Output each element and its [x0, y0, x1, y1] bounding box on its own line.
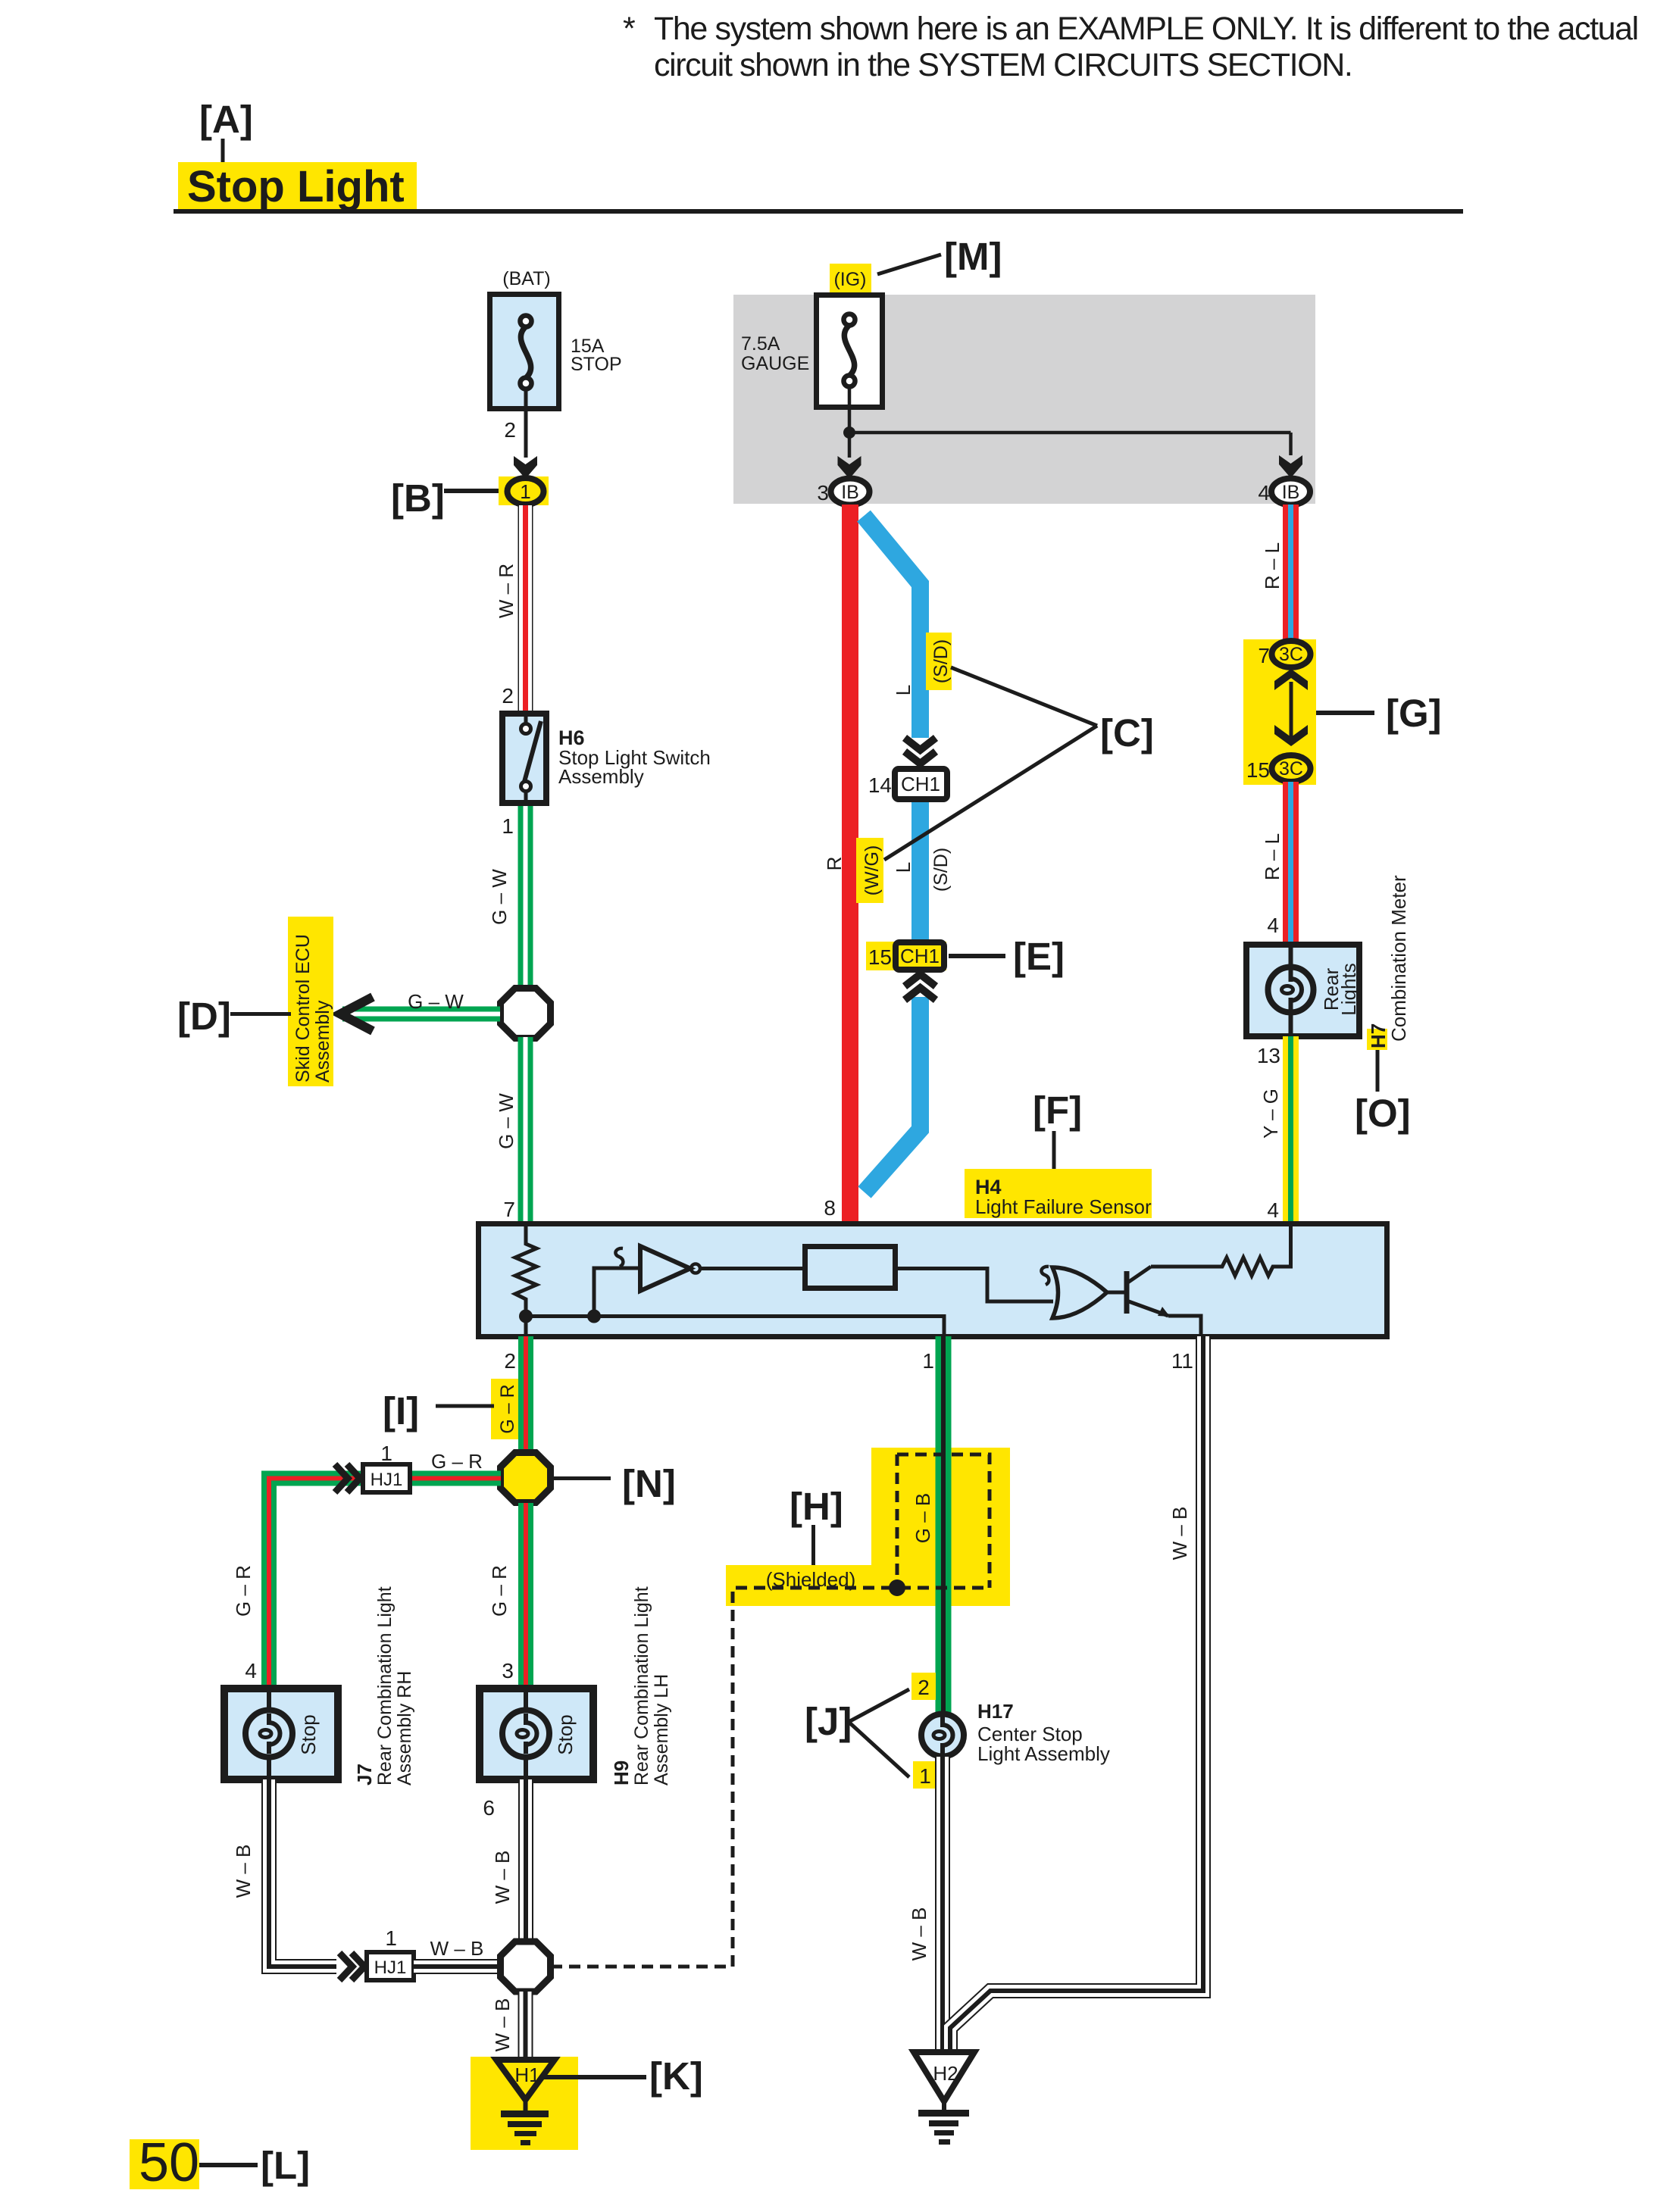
lamp H9 Rear Combination Light Assembly LH: [480, 1689, 593, 1779]
H4 internal: line comparator to relay box: [700, 1267, 802, 1270]
svg-text:G – W: G – W: [408, 990, 464, 1013]
junction connector yellow box 3C pair: [1243, 639, 1316, 785]
svg-text:3: 3: [817, 481, 829, 505]
wire G-R horizontal octagon to HJ1 to corner: [269, 1450, 501, 1688]
H4 internal: emitter to pin 11: [1168, 1316, 1201, 1335]
svg-text:G – W: G – W: [488, 869, 511, 925]
H4 internal: comparator curl: [615, 1248, 623, 1267]
svg-text:1: 1: [919, 1764, 931, 1788]
connector B "1": [499, 476, 549, 505]
title Stop Light: [174, 162, 1463, 214]
svg-text:HJ1: HJ1: [371, 1470, 403, 1490]
connector 3 IB: [817, 479, 869, 505]
svg-text:W – B: W – B: [491, 1998, 514, 2052]
wire G-R from H4 pin 2 to octagon N: [518, 1336, 533, 1453]
label H17 Center Stop Light Assembly: [977, 1700, 1110, 1765]
svg-text:W – B: W – B: [430, 1937, 484, 1960]
svg-text:[D]: [D]: [177, 995, 231, 1038]
lamp H17 Center Stop Light Assembly: [921, 1714, 964, 1757]
H4 internal: OR gate curl: [1041, 1267, 1049, 1285]
svg-text:Assembly: Assembly: [312, 1000, 333, 1083]
svg-text:Light Assembly: Light Assembly: [977, 1742, 1110, 1765]
svg-text:1: 1: [922, 1349, 934, 1373]
shield yellow backgrounds: [726, 1448, 1010, 1606]
svg-text:[C]: [C]: [1100, 711, 1154, 755]
svg-text:8: 8: [824, 1196, 836, 1220]
connector 14 CH1: [868, 769, 947, 799]
svg-text:(S/D): (S/D): [930, 848, 952, 892]
wire W-B octagon to ground H1: [491, 1992, 526, 2057]
label Skid Control ECU Assembly: [288, 917, 333, 1086]
wire L (S/D shielded blue) upper run: [864, 516, 921, 1192]
svg-text:G – R: G – R: [488, 1565, 511, 1617]
label H9: [610, 1586, 672, 1786]
svg-text:4: 4: [245, 1659, 257, 1682]
svg-text:Lights: Lights: [1337, 963, 1360, 1015]
connector 15 CH1: [866, 942, 946, 970]
component H4 Light Failure Sensor box: [479, 1224, 1387, 1337]
svg-text:HJ1: HJ1: [374, 1957, 407, 1978]
svg-text:Combination Meter: Combination Meter: [1387, 875, 1410, 1042]
connector HJ1 (upper): [363, 1442, 410, 1492]
svg-text:[E]: [E]: [1013, 935, 1065, 978]
svg-text:H9: H9: [610, 1761, 633, 1786]
label [M]: [877, 235, 1002, 278]
svg-text:(W/G): (W/G): [861, 845, 883, 896]
label (W/G) yellow: [856, 838, 883, 903]
wire fuse1 to connector B: [504, 411, 537, 479]
page number 50 [L]: [130, 2132, 310, 2193]
svg-text:Stop: Stop: [554, 1714, 577, 1755]
lamp J7 Rear Combination Light Assembly RH: [224, 1689, 338, 1779]
label G-R yellow [I]: [491, 1379, 518, 1439]
wire W-B from H9 pin 6 to octagon: [491, 1779, 526, 1943]
label [J]: [805, 1689, 909, 1777]
svg-text:3C: 3C: [1279, 758, 1303, 780]
svg-text:1: 1: [502, 814, 514, 838]
ground H2: [914, 2052, 974, 2145]
svg-text:Skid Control ECU: Skid Control ECU: [292, 934, 314, 1083]
chevron arrows into 14 CH1: [905, 738, 936, 764]
svg-text:2: 2: [504, 418, 516, 442]
wire R-L from 4 IB to connector 3C: [1261, 505, 1291, 643]
connector 15 3C: [1246, 755, 1311, 782]
svg-text:IB: IB: [1282, 482, 1300, 503]
svg-text:3C: 3C: [1279, 644, 1303, 665]
svg-text:G – B: G – B: [911, 1493, 934, 1543]
H4 internal: horizontal resistor to pin 4: [1151, 1226, 1291, 1276]
connector HJ1 (lower): [367, 1926, 414, 1980]
chevron arrows out of 15 CH1: [905, 974, 936, 1000]
wire G-W vertical upper: [488, 806, 526, 989]
svg-text:CH1: CH1: [901, 773, 940, 795]
label [N]: [551, 1462, 676, 1505]
arrowhead to skid control ECU: [340, 997, 373, 1031]
svg-text:STOP: STOP: [571, 354, 622, 375]
H4 top pin labels 7 8 4: [503, 1196, 1279, 1222]
label G-R rotated (H9 branch): [488, 1503, 526, 1688]
svg-text:G – R: G – R: [232, 1565, 255, 1617]
chevron arrows into HJ1 (upper): [335, 1464, 360, 1492]
svg-text:[B]: [B]: [391, 476, 445, 520]
connector 4 IB: [1258, 479, 1310, 505]
svg-text:[L]: [L]: [261, 2144, 310, 2187]
svg-text:13: 13: [1257, 1044, 1280, 1067]
svg-text:[F]: [F]: [1033, 1089, 1082, 1132]
svg-text:CH1: CH1: [900, 945, 940, 967]
svg-text:Stop: Stop: [297, 1714, 320, 1755]
pin 2 label H17 (yellow): [911, 1673, 936, 1700]
label [H]: [790, 1485, 843, 1565]
svg-text:Rear Combination Light: Rear Combination Light: [631, 1586, 652, 1786]
svg-text:H2: H2: [933, 2062, 958, 2085]
svg-text:[J]: [J]: [805, 1700, 852, 1743]
svg-text:W – B: W – B: [491, 1851, 514, 1904]
H4 internal: vertical resistor: [515, 1226, 536, 1316]
svg-text:2: 2: [504, 1349, 516, 1373]
junction octagon W-B node: [501, 1942, 551, 1992]
svg-text:15: 15: [868, 945, 892, 969]
label [C] with pointer lines: [884, 667, 1154, 860]
svg-text:6: 6: [483, 1796, 495, 1820]
fuse 15A STOP (BAT): [490, 268, 622, 409]
wire W-B from J7 pin 3 to HJ1 lower: [232, 1779, 336, 1967]
svg-text:[H]: [H]: [790, 1485, 843, 1528]
svg-text:[I]: [I]: [383, 1389, 419, 1432]
svg-text:Light Failure Sensor: Light Failure Sensor: [975, 1195, 1152, 1218]
switch H6 Stop Light Switch Assembly: [502, 684, 710, 838]
svg-text:*: *: [623, 11, 636, 47]
svg-text:1: 1: [380, 1442, 392, 1465]
svg-text:Assembly RH: Assembly RH: [394, 1671, 415, 1786]
svg-text:W – B: W – B: [1168, 1507, 1191, 1561]
H4 internal: OR gate: [1052, 1267, 1107, 1318]
svg-text:Assembly: Assembly: [558, 765, 644, 788]
label H4 Light Failure Sensor: [965, 1169, 1152, 1218]
svg-text:The system shown here is an EX: The system shown here is an EXAMPLE ONLY…: [654, 11, 1638, 47]
label J7: [353, 1586, 415, 1786]
svg-text:1: 1: [385, 1926, 397, 1950]
svg-text:15: 15: [1246, 758, 1270, 782]
svg-text:H1: H1: [514, 2064, 539, 2086]
svg-text:[N]: [N]: [622, 1462, 676, 1505]
svg-text:L: L: [892, 862, 915, 873]
H4 internal: transistor: [1107, 1267, 1170, 1317]
wire W-B HJ1 to octagon lower: [414, 1937, 501, 1967]
wire G-W horizontal to skid ECU: [342, 990, 500, 1014]
label (S/D) yellow upper: [926, 633, 952, 690]
svg-text:14: 14: [868, 773, 892, 797]
label [B]: [391, 476, 506, 520]
svg-text:L: L: [892, 685, 915, 695]
junction block grey box: [733, 295, 1315, 504]
svg-text:(IG): (IG): [833, 269, 866, 290]
H4 internal: comparator input line: [594, 1268, 639, 1317]
svg-text:IB: IB: [841, 482, 859, 503]
H4 internal: comparator triangle: [640, 1246, 700, 1291]
label [G]: [1316, 692, 1442, 735]
svg-text:[M]: [M]: [944, 235, 1002, 278]
ground H1 (yellow): [471, 2057, 578, 2150]
svg-text:[G]: [G]: [1386, 692, 1442, 735]
svg-text:W – R: W – R: [495, 564, 517, 618]
svg-text:(BAT): (BAT): [502, 268, 550, 289]
wire R-L from 15 3C to combination meter: [1261, 782, 1291, 945]
svg-text:(S/D): (S/D): [930, 639, 952, 683]
H4 internal: junction dots: [519, 1310, 533, 1323]
svg-text:GAUGE: GAUGE: [741, 353, 809, 374]
svg-text:R – L: R – L: [1261, 833, 1284, 880]
label (IG): [830, 264, 871, 292]
wire G-W vertical lower: [495, 1037, 526, 1223]
svg-text:G – R: G – R: [497, 1384, 518, 1433]
wire W-R vertical: [495, 505, 526, 711]
svg-text:50: 50: [139, 2132, 199, 2193]
svg-text:2: 2: [502, 684, 514, 708]
junction octagon (G-W node): [501, 989, 551, 1039]
H4 internal: relay rectangle: [805, 1247, 896, 1289]
svg-text:Y – G: Y – G: [1259, 1089, 1282, 1139]
svg-text:Stop Light: Stop Light: [187, 162, 405, 211]
H4 internal: line relay to OR gate: [896, 1269, 1053, 1302]
svg-text:[O]: [O]: [1355, 1092, 1411, 1135]
svg-text:4: 4: [1267, 914, 1279, 937]
svg-text:W – B: W – B: [232, 1845, 255, 1898]
svg-text:R – L: R – L: [1261, 542, 1284, 589]
wire Y-G combination meter to H4 pin 4: [1257, 1036, 1291, 1223]
junction block internal wiring: [838, 386, 1303, 479]
fuse 7.5A GAUGE (IG): [741, 295, 883, 408]
svg-text:H7: H7: [1367, 1023, 1390, 1048]
arrows between 3C connectors: [1274, 669, 1308, 746]
wire G-B from H4 pin 1 to H17: [911, 1336, 943, 1713]
H4 internal: bus line to pin 1: [526, 1317, 944, 1336]
label [I]: [383, 1389, 494, 1432]
junction octagon N (yellow): [501, 1453, 551, 1503]
wire R (red) from 3 IB to H4 pin 8: [823, 505, 850, 1223]
svg-text:7: 7: [1258, 644, 1270, 667]
svg-text:1: 1: [520, 480, 530, 503]
svg-text:[A]: [A]: [199, 98, 253, 141]
svg-text:4: 4: [1258, 481, 1270, 505]
label [F]: [1033, 1089, 1082, 1173]
label [K]: [543, 2054, 703, 2098]
svg-text:R: R: [823, 857, 846, 871]
chevron arrows into HJ1 (lower): [339, 1953, 364, 1980]
svg-text:J7: J7: [353, 1764, 376, 1786]
label [E]: [949, 935, 1065, 978]
svg-text:G – R: G – R: [431, 1450, 483, 1473]
svg-text:circuit shown in the SYSTEM CI: circuit shown in the SYSTEM CIRCUITS SEC…: [654, 47, 1352, 83]
svg-text:3: 3: [502, 1659, 514, 1682]
shield dashed box around G-B: [551, 1454, 990, 1967]
svg-text:7.5A: 7.5A: [741, 333, 780, 355]
H4 bottom pin labels 2 1 11: [504, 1349, 1193, 1373]
wire W-B from H4 pin 11 to ground junction: [950, 1336, 1203, 2051]
svg-text:H17: H17: [977, 1700, 1014, 1723]
H4 internal: line pin2 from dot: [524, 1317, 528, 1336]
label H7: [1367, 1023, 1390, 1092]
svg-text:4: 4: [1267, 1198, 1279, 1222]
svg-text:[K]: [K]: [649, 2054, 703, 2098]
svg-text:Assembly LH: Assembly LH: [651, 1674, 672, 1786]
svg-text:7: 7: [503, 1198, 515, 1221]
wire W-B H17 to ground H2: [908, 1757, 943, 2051]
pin 1 label H17 (yellow): [913, 1761, 937, 1789]
label [D]: [177, 995, 291, 1038]
svg-text:Rear Combination Light: Rear Combination Light: [374, 1586, 396, 1786]
svg-text:11: 11: [1171, 1349, 1193, 1373]
svg-text:W – B: W – B: [908, 1907, 930, 1961]
note text header: [623, 11, 1638, 83]
label [A]: [199, 98, 253, 164]
svg-text:G – W: G – W: [495, 1093, 517, 1149]
combination meter H7 box with Rear Lights bulb: [1246, 945, 1360, 1036]
svg-text:2: 2: [918, 1676, 930, 1699]
connector 7 3C: [1258, 641, 1310, 667]
